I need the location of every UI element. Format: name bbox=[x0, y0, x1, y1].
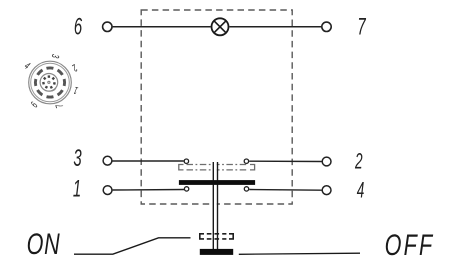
connector pin number 3 bbox=[49, 53, 61, 59]
actuator stem bbox=[213, 162, 217, 249]
terminal 3 label bbox=[73, 146, 81, 172]
terminal 6 bbox=[103, 22, 112, 31]
terminal 4 label bbox=[357, 177, 365, 202]
contact NC right bbox=[244, 187, 248, 191]
moving contact bridge (bar) bbox=[179, 180, 255, 185]
connector outer rim bbox=[29, 61, 72, 104]
contact NC left bbox=[184, 187, 188, 191]
wire terminal3 to contact bbox=[113, 160, 184, 162]
svg-text:ON: ON bbox=[27, 227, 61, 261]
connector slot ring bbox=[32, 65, 67, 100]
connector center pin bbox=[48, 81, 50, 83]
terminal 4 bbox=[322, 186, 331, 195]
connector rear-view icon bbox=[22, 53, 80, 109]
wire terminal1 to contact bbox=[113, 189, 184, 192]
svg-text:OFF: OFF bbox=[385, 227, 435, 261]
terminal 2 bbox=[322, 157, 331, 166]
contact NO right bbox=[244, 159, 248, 163]
connector pin number 4 bbox=[22, 60, 32, 72]
svg-text:6: 6 bbox=[74, 14, 83, 40]
terminal 7 label bbox=[357, 14, 366, 40]
connector pins bbox=[42, 75, 56, 89]
OFF text bbox=[385, 227, 435, 261]
wire contact to terminal4 bbox=[249, 189, 321, 192]
terminal 3 bbox=[103, 156, 112, 165]
lever knob phantom (ON position) bbox=[200, 234, 233, 239]
connector pin number 2 bbox=[70, 62, 80, 74]
connector pin number 6 bbox=[28, 100, 40, 110]
svg-text:1: 1 bbox=[73, 176, 81, 202]
contact NO left bbox=[184, 159, 188, 163]
wire contact to terminal2 bbox=[249, 160, 322, 162]
terminal 7 bbox=[322, 22, 331, 31]
svg-text:3: 3 bbox=[73, 146, 81, 172]
svg-text:4: 4 bbox=[357, 177, 365, 202]
ON text bbox=[27, 227, 61, 261]
wire lamp to terminal7 bbox=[230, 26, 322, 28]
connector pin number 1 bbox=[72, 84, 79, 97]
ON lever travel line bbox=[74, 238, 191, 254]
lamp E1 bbox=[212, 18, 229, 35]
phantom bridge (ON position) bbox=[179, 165, 255, 170]
wire terminal6 to lamp bbox=[113, 26, 211, 28]
terminal 1 label bbox=[73, 176, 81, 202]
connector pin number 7 bbox=[53, 102, 66, 110]
lever knob (OFF position) bbox=[200, 249, 233, 255]
terminal 2 label bbox=[354, 148, 362, 173]
svg-text:2: 2 bbox=[354, 148, 362, 173]
connector keyway spiral bbox=[49, 88, 56, 92]
svg-text:7: 7 bbox=[357, 14, 366, 40]
switch body dashed outline bbox=[141, 10, 292, 204]
connector inner barrel bbox=[40, 74, 58, 92]
terminal 1 bbox=[103, 186, 112, 195]
OFF lever travel line bbox=[239, 253, 360, 254]
terminal 6 label bbox=[74, 14, 83, 40]
